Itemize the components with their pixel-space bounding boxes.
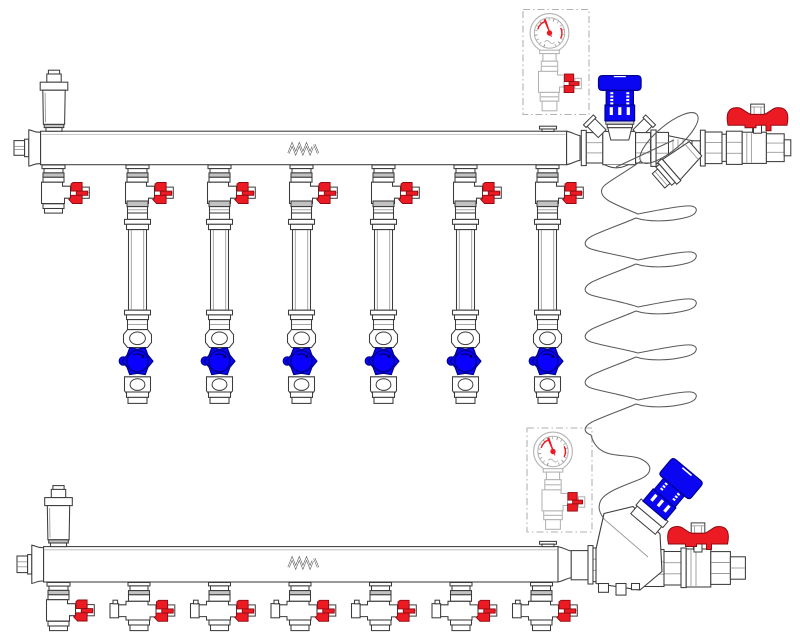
flange ring R4	[588, 546, 593, 584]
union nut N5	[726, 131, 742, 164]
BV1 outlet nipple	[784, 140, 791, 156]
balancing valve seat tee	[603, 131, 636, 164]
MVI logo	[289, 144, 313, 153]
pipe nipple	[692, 141, 700, 156]
BV2 red butterfly handle	[694, 540, 702, 552]
balancing valve (blue) on supply	[599, 76, 642, 140]
flow meter branch pipe 1	[125, 201, 151, 330]
zone shut-off valve V7	[536, 165, 584, 204]
gauge port stub on M1	[540, 126, 557, 129]
tapered adaptor	[669, 136, 693, 161]
air vent AV2	[45, 486, 73, 547]
zone shut-off valve V2	[126, 165, 174, 204]
union flange ring R1	[581, 130, 586, 165]
union nut N6	[593, 548, 609, 582]
pressure gauge of pressure gauge set G1	[530, 14, 569, 53]
flow meter valve FM3	[283, 330, 317, 404]
union nut N7	[643, 550, 664, 587]
zone shut-off valve V5	[372, 165, 420, 204]
flange ring R2	[651, 130, 656, 166]
flow meter valve FM2	[201, 330, 235, 404]
gauge port stub on M2	[540, 541, 557, 544]
union nut N1	[586, 133, 603, 163]
valve body casting notches	[599, 584, 609, 593]
union nut N4	[705, 132, 722, 164]
manifold M1 (top rail)	[14, 130, 580, 166]
pressure gauge of pressure gauge set G2	[534, 432, 573, 471]
zone shut-off valve V8	[47, 583, 95, 622]
neck pipe after bottom bell	[571, 551, 588, 580]
BV2 outlet hex	[711, 552, 731, 585]
pressure gauge set G2 (optional, dashed)	[527, 428, 592, 532]
end drain tail of V8	[48, 621, 69, 626]
gauge isolation valve of pressure gauge set G1	[539, 50, 582, 111]
flexible filling hose (coiled)	[585, 161, 696, 519]
angled stub left of balancing valve	[583, 115, 607, 139]
end drain tail of V1	[43, 204, 64, 209]
hose top loop around strainer	[633, 105, 705, 171]
zone shut-off valve V4	[290, 165, 338, 204]
zone return valve V10	[191, 583, 256, 631]
zone return valve V12	[352, 583, 417, 631]
flange ring R5	[681, 548, 686, 588]
angled blue valve (return balancing)	[628, 457, 704, 537]
flow meter valve FM6	[529, 330, 563, 404]
flow meter branch pipe 4	[371, 201, 397, 330]
pressure gauge set G1 (optional, dashed)	[523, 10, 589, 115]
BV2 outlet nipple	[730, 557, 745, 579]
union nut N3	[656, 132, 668, 163]
BV1 red butterfly handle	[754, 121, 762, 133]
zone return valve V14	[513, 583, 578, 631]
angled stub right of balancing valve	[632, 115, 656, 139]
flow meter valve FM5	[447, 330, 481, 404]
zone shut-off valve V6	[454, 165, 502, 204]
washer	[722, 134, 726, 161]
air vent AV1	[40, 70, 68, 131]
ball valve BV2 body	[686, 549, 711, 587]
flow meter branch pipe 6	[535, 201, 561, 330]
zone return valve V13	[432, 583, 497, 631]
angle isolating valve body	[596, 507, 662, 591]
drain spout under seat	[605, 165, 628, 168]
union nut N2	[636, 133, 651, 163]
union nut N8	[664, 552, 681, 586]
Y-strainer on supply	[649, 138, 705, 192]
ball valve BV1 body	[742, 132, 766, 163]
BV1 outlet hex	[766, 134, 784, 162]
flow meter valve FM4	[365, 330, 399, 404]
flow meter branch pipe 2	[207, 201, 233, 330]
BV1 stem	[753, 123, 761, 132]
flexible filling hose entry from drain spout	[616, 140, 674, 167]
gauge isolation valve of pressure gauge set G2	[542, 469, 585, 530]
BV2 stem	[693, 544, 701, 549]
zone return valve V11	[271, 583, 336, 631]
zone return valve V9	[110, 583, 175, 631]
zone shut-off valve V3	[208, 165, 256, 204]
MVI logo	[289, 558, 313, 567]
flow meter valve FM1	[119, 330, 153, 404]
manifold M2 (bottom rail)	[17, 545, 571, 583]
flange ring R3	[700, 130, 705, 166]
flow meter branch pipe 3	[289, 201, 315, 330]
flow meter branch pipe 5	[453, 201, 479, 330]
zone shut-off valve V1	[42, 165, 90, 204]
